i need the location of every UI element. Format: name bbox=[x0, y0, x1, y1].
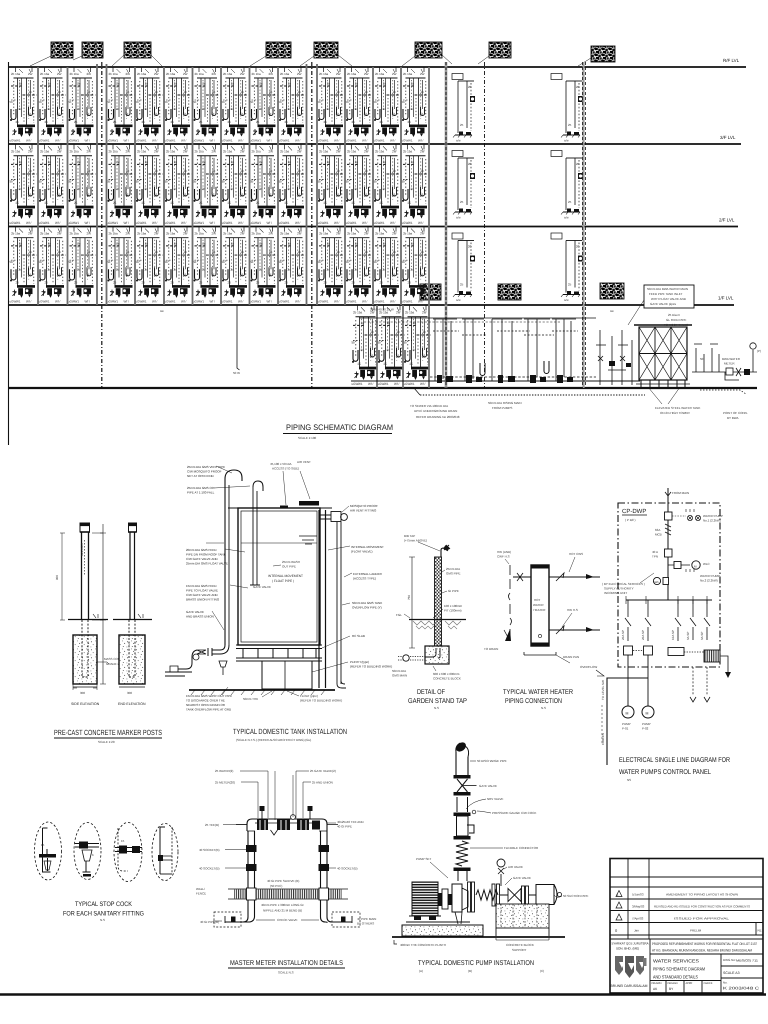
svg-text:WATER PUMP: WATER PUMP bbox=[700, 574, 720, 578]
contactors row bbox=[624, 646, 633, 655]
svg-text:GATE VALVE: GATE VALVE bbox=[479, 784, 497, 788]
svg-text:AND STANDARD DETAILS: AND STANDARD DETAILS bbox=[653, 975, 698, 980]
svg-text:AIR VALVE: AIR VALVE bbox=[508, 865, 523, 869]
cylinder strainer bbox=[536, 885, 554, 905]
svg-text:K 2003/048 C: K 2003/048 C bbox=[723, 986, 759, 991]
svg-text:6A SP: 6A SP bbox=[686, 632, 690, 640]
svg-text:RC SLAB: RC SLAB bbox=[352, 634, 365, 638]
ground line bbox=[392, 936, 565, 938]
svg-text:M: M bbox=[626, 712, 629, 716]
svg-text:600 x 600 x 600mm: 600 x 600 x 600mm bbox=[433, 672, 460, 676]
svg-text:25 GATE VALVE(2): 25 GATE VALVE(2) bbox=[310, 769, 336, 773]
svg-text:25mm DIA GMS FLOAT VALVE: 25mm DIA GMS FLOAT VALVE bbox=[186, 562, 228, 566]
header assembly bbox=[247, 819, 327, 831]
triangles + dates + descriptions bbox=[616, 891, 622, 897]
riser column 2 units bbox=[561, 81, 583, 143]
FGL line + hatch bbox=[409, 619, 466, 621]
ground line bbox=[8, 387, 757, 389]
svg-text:PIPE DN FROM ROOF TANK: PIPE DN FROM ROOF TANK bbox=[186, 553, 226, 557]
svg-text:HOT: HOT bbox=[534, 598, 541, 602]
bottom border bbox=[0, 993, 766, 995]
base under motor bbox=[406, 922, 470, 925]
svg-text:PUMP: PUMP bbox=[622, 722, 631, 726]
svg-text:6A SP: 6A SP bbox=[700, 632, 704, 640]
svg-text:(SCALE N.T.S.) (REFE: (SCALE N.T.S.) (REFER ALSO ARCHITECT DWG… bbox=[236, 738, 311, 742]
left leader lines bbox=[206, 466, 250, 695]
svg-text:NRV VALVE: NRV VALVE bbox=[487, 797, 503, 801]
wall band bbox=[228, 888, 348, 890]
motor feeders below panel bbox=[628, 655, 648, 678]
left wall bbox=[8, 62, 10, 445]
svg-text:PRESSURE GAUGE C/W COCK: PRESSURE GAUGE C/W COCK bbox=[492, 811, 536, 815]
svg-text:5/Jun/03: 5/Jun/03 bbox=[632, 893, 644, 897]
horizontal spring bbox=[476, 890, 498, 900]
left labels bbox=[186, 465, 232, 712]
revision rows bbox=[610, 877, 763, 939]
svg-text:ON 2m HIGH TOWER: ON 2m HIGH TOWER bbox=[660, 411, 691, 415]
svg-text:50 SUCTION PIPE: 50 SUCTION PIPE bbox=[563, 894, 588, 898]
ground floor distribution headers bbox=[360, 317, 596, 319]
svg-text:N.S: N.S bbox=[541, 706, 546, 710]
svg-text:25 METER(20): 25 METER(20) bbox=[215, 781, 235, 785]
coupling bbox=[438, 893, 442, 906]
logo bbox=[615, 956, 647, 978]
svg-text:BRUNEI DARUSSALAM: BRUNEI DARUSSALAM bbox=[611, 984, 648, 988]
post 1 cap bbox=[80, 523, 90, 532]
svg-text:METER: METER bbox=[724, 362, 735, 366]
heater body bbox=[531, 565, 549, 646]
left low-level pipework bbox=[212, 645, 225, 650]
svg-text:NS: NS bbox=[627, 778, 631, 782]
svg-text:UPVC UNDERGROUND DRAIN: UPVC UNDERGROUND DRAIN bbox=[414, 409, 457, 413]
svg-text:ACCESS (TO SIDE): ACCESS (TO SIDE) bbox=[272, 467, 299, 471]
svg-text:(ACCESS TYPE): (ACCESS TYPE) bbox=[353, 577, 376, 581]
svg-text:20A SP: 20A SP bbox=[641, 630, 645, 640]
svg-text:50mm THK: 50mm THK bbox=[243, 697, 258, 701]
svg-text:(+75mm ABOVE): (+75mm ABOVE) bbox=[404, 539, 427, 543]
svg-text:C/W MOSQUITO PROOF: C/W MOSQUITO PROOF bbox=[187, 470, 222, 474]
svg-text:50 DISCHARGE PIPE: 50 DISCHARGE PIPE bbox=[477, 759, 507, 763]
svg-text:NIPPLE AND 21 M BEND (B): NIPPLE AND 21 M BEND (B) bbox=[263, 909, 302, 913]
svg-text:TO ROOF TANKS: TO ROOF TANKS bbox=[664, 323, 688, 327]
svg-text:25mm DIA GMS VENT PIPE: 25mm DIA GMS VENT PIPE bbox=[187, 465, 225, 469]
svg-text:( P 1Ø ): ( P 1Ø ) bbox=[625, 518, 635, 522]
svg-text:OUT PIPE: OUT PIPE bbox=[282, 565, 296, 569]
svg-text:AIR VENT FITTING: AIR VENT FITTING bbox=[350, 509, 377, 513]
svg-text:P-02: P-02 bbox=[642, 727, 649, 731]
discharge elbow top bbox=[454, 740, 468, 753]
svg-text:NEAREST OPEN DRAIN OR: NEAREST OPEN DRAIN OR bbox=[186, 703, 226, 707]
svg-text:Jan: Jan bbox=[634, 929, 639, 933]
svg-text:GATE VALVE: GATE VALVE bbox=[186, 610, 204, 614]
float pipe bbox=[253, 481, 263, 491]
svg-text:HW H.S: HW H.S bbox=[567, 608, 578, 612]
post 1 dim line bbox=[100, 524, 106, 684]
svg-text:25 TEE(B): 25 TEE(B) bbox=[205, 823, 219, 827]
svg-text:20A SP: 20A SP bbox=[621, 630, 625, 640]
svg-text:WATER PUMP: WATER PUMP bbox=[703, 514, 723, 518]
inlet pipe top left bbox=[225, 470, 242, 481]
meters on header bbox=[257, 820, 268, 831]
valve bowtie horizontal bbox=[508, 889, 521, 902]
svg-text:15: 15 bbox=[41, 843, 45, 847]
svg-text:7/Apr/03: 7/Apr/03 bbox=[632, 917, 644, 921]
left dims bbox=[60, 533, 65, 620]
ground bbox=[189, 689, 335, 691]
svg-text:TANK OVERFLOW PIPE AT GRD: TANK OVERFLOW PIPE AT GRD bbox=[186, 708, 232, 712]
stair gap risers (dash-dot dark) bbox=[101, 62, 103, 388]
svg-text:N.S: N.S bbox=[434, 706, 439, 710]
svg-text:PIPE AT 1:100 FALL: PIPE AT 1:100 FALL bbox=[187, 491, 215, 495]
svg-text:400mm THK CONCRETE PLINTH: 400mm THK CONCRETE PLINTH bbox=[400, 943, 446, 947]
svg-text:CONCRETE BLOCK: CONCRETE BLOCK bbox=[433, 677, 461, 681]
svg-text:SIDE ELEVATION: SIDE ELEVATION bbox=[71, 702, 100, 706]
svg-text:40 A: 40 A bbox=[652, 550, 658, 554]
note box near tank bbox=[644, 285, 694, 308]
svg-text:BIB TAP: BIB TAP bbox=[404, 534, 415, 538]
svg-text:PIPING SCHEMATIC DIAGRAM: PIPING SCHEMATIC DIAGRAM bbox=[653, 967, 705, 972]
branch to motor bbox=[668, 564, 690, 566]
breaker 2 bbox=[665, 549, 673, 557]
vertical pipes bbox=[248, 831, 327, 917]
svg-text:(FLOAT VALVE): (FLOAT VALVE) bbox=[351, 550, 372, 554]
tank body bbox=[238, 508, 320, 645]
svg-text:FOR EACH SANITARY FITTING: FOR EACH SANITARY FITTING bbox=[63, 911, 144, 918]
bib tap bbox=[441, 548, 448, 557]
svg-text:kWh: kWh bbox=[654, 581, 660, 584]
svg-text:DESIGN: DESIGN bbox=[668, 982, 678, 985]
svg-text:750: 750 bbox=[407, 595, 411, 600]
svg-text:(P): (P) bbox=[757, 349, 761, 353]
svg-text:SUPPORT: SUPPORT bbox=[512, 948, 527, 952]
svg-text:FLOAT (pipe): FLOAT (pipe) bbox=[300, 694, 318, 698]
svg-text:(REFER TO BUILDING WORK): (REFER TO BUILDING WORK) bbox=[300, 699, 342, 703]
svg-text:PIPING CONNECTION: PIPING CONNECTION bbox=[505, 698, 562, 705]
svg-text:NET AT OPEN END: NET AT OPEN END bbox=[187, 474, 215, 478]
svg-text:FLEXIBLE CONNECTOR: FLEXIBLE CONNECTOR bbox=[504, 846, 539, 850]
elevated steel tank bbox=[634, 325, 700, 415]
svg-text:PUMP SET: PUMP SET bbox=[416, 857, 431, 861]
svg-text:50mm DIA BWA WATER MAIN: 50mm DIA BWA WATER MAIN bbox=[647, 287, 688, 291]
svg-text:900: 900 bbox=[55, 575, 59, 580]
svg-text:PROPOSED REFURBISHMENT WORKS F: PROPOSED REFURBISHMENT WORKS FOR RESIDEN… bbox=[652, 942, 757, 946]
svg-text:GMS MAIN: GMS MAIN bbox=[392, 674, 407, 678]
svg-text:APPR: APPR bbox=[686, 982, 693, 985]
circle 3 bbox=[114, 823, 142, 882]
ground floor fixture groups mid bbox=[433, 319, 459, 383]
svg-text:40mm PIPE x 300mm LONG GI: 40mm PIPE x 300mm LONG GI bbox=[261, 903, 304, 907]
panel border dash-dot bbox=[618, 503, 720, 667]
svg-text:50: 50 bbox=[700, 357, 704, 361]
svg-text:No.: No. bbox=[723, 981, 728, 985]
dashed drops to field bbox=[693, 667, 707, 695]
svg-text:2/F LVL: 2/F LVL bbox=[719, 218, 735, 223]
svg-text:1/F LVL: 1/F LVL bbox=[718, 296, 734, 301]
svg-text:OVERFLOW PIPE (Y): OVERFLOW PIPE (Y) bbox=[352, 606, 382, 610]
footing bbox=[425, 646, 449, 664]
fuse chevrons bbox=[665, 524, 671, 535]
svg-text:ISSUED FOR APPROVAL: ISSUED FOR APPROVAL bbox=[674, 917, 729, 921]
circle 4 bbox=[152, 824, 178, 881]
svg-text:FENCE: FENCE bbox=[196, 892, 206, 896]
svg-text:DETAIL OF: DETAIL OF bbox=[417, 689, 445, 696]
svg-text:BWA WATER: BWA WATER bbox=[722, 357, 741, 361]
svg-text:TPN: TPN bbox=[652, 555, 658, 559]
svg-text:M: M bbox=[646, 712, 649, 716]
svg-text:OVERFLOW: OVERFLOW bbox=[580, 665, 597, 669]
svg-text:40 SOCKET(B): 40 SOCKET(B) bbox=[199, 848, 220, 852]
svg-text:SCALE 1:100: SCALE 1:100 bbox=[298, 436, 317, 440]
svg-text:25 Dia m: 25 Dia m bbox=[668, 313, 681, 317]
unit bays: 2/F band bbox=[10, 227, 430, 303]
1/F level label boxes (speckled) bbox=[420, 284, 441, 300]
svg-text:25mm DIA GMS O/F: 25mm DIA GMS O/F bbox=[187, 486, 215, 490]
svg-text:300: 300 bbox=[127, 691, 132, 695]
svg-text:PRE-CAST CONCRETE MARKER POSTS: PRE-CAST CONCRETE MARKER POSTS bbox=[54, 728, 162, 737]
svg-text:HOT CWS: HOT CWS bbox=[569, 552, 583, 556]
svg-text:WALL/: WALL/ bbox=[196, 887, 205, 891]
right support column bbox=[319, 510, 326, 688]
svg-text:20 50 40 50 25 W: 20 50 40 50 25 W bbox=[370, 308, 394, 312]
svg-text:PIT (100mm): PIT (100mm) bbox=[444, 609, 461, 613]
footing 1 bbox=[73, 635, 97, 684]
svg-text:N.S: N.S bbox=[100, 918, 105, 922]
svg-text:REVISED AND RE-ISSUED FOR CONS: REVISED AND RE-ISSUED FOR CONSTRUCTION A… bbox=[654, 905, 750, 909]
lower section bbox=[649, 939, 651, 993]
svg-text:25mm DIA: 25mm DIA bbox=[446, 567, 460, 571]
svg-text:No.2 (2.2kW): No.2 (2.2kW) bbox=[700, 579, 718, 583]
incoming supply bbox=[667, 488, 669, 600]
svg-text:R/F LVL: R/F LVL bbox=[723, 58, 740, 63]
svg-text:BY OTHERS: BY OTHERS bbox=[357, 922, 374, 926]
below ground dotted drain bbox=[420, 394, 645, 396]
svg-text:TO DISCHARGE OVER THE: TO DISCHARGE OVER THE bbox=[186, 699, 225, 703]
svg-text:INTERNAL MOVEMENT: INTERNAL MOVEMENT bbox=[351, 545, 384, 549]
svg-text:POINT OF CONN.: POINT OF CONN. bbox=[723, 411, 748, 415]
leader lines from roof boxes bbox=[30, 55, 591, 66]
svg-text:40x25x40 TEE AND: 40x25x40 TEE AND bbox=[337, 820, 364, 824]
svg-text:MARKER: MARKER bbox=[80, 542, 84, 556]
svg-text:PRELIM: PRELIM bbox=[690, 929, 702, 933]
svg-text:CHECK: CHECK bbox=[704, 982, 713, 985]
post 1 shaft bbox=[82, 532, 89, 620]
svg-text:PIPING SCHEMATIC DIAGRAM: PIPING SCHEMATIC DIAGRAM bbox=[286, 423, 393, 432]
circle 1 bbox=[35, 822, 62, 880]
unit bays: ground band (right part only) bbox=[352, 306, 432, 386]
svg-text:50mm DIA GMS TANK: 50mm DIA GMS TANK bbox=[352, 601, 382, 605]
svg-text:40 SOCKET(B): 40 SOCKET(B) bbox=[199, 867, 220, 871]
svg-text:EXTERNAL LADDER: EXTERNAL LADDER bbox=[353, 572, 383, 576]
post 2 shaft bbox=[130, 532, 135, 620]
ground line post1 bbox=[68, 619, 108, 621]
svg-text:TYPICAL STOP COCK: TYPICAL STOP COCK bbox=[75, 901, 133, 908]
cover bar bbox=[299, 501, 319, 506]
svg-text:25mm WASH: 25mm WASH bbox=[282, 560, 300, 564]
flange pair bbox=[492, 884, 495, 906]
svg-text:GATE VALVE: GATE VALVE bbox=[253, 585, 271, 589]
svg-text:GARDEN STAND TAP: GARDEN STAND TAP bbox=[408, 698, 467, 705]
bottom elbows bbox=[225, 917, 255, 922]
pedestal under valve train bbox=[496, 904, 549, 928]
svg-text:CP-DWP: CP-DWP bbox=[622, 508, 646, 515]
svg-text:FGL: FGL bbox=[396, 613, 402, 617]
svg-text:TYPICAL DOMESTIC PUMP INSTALLA: TYPICAL DOMESTIC PUMP INSTALLATION bbox=[418, 960, 534, 967]
unit bays: 3/F band bbox=[10, 145, 430, 225]
svg-text:GATE VALVE: GATE VALVE bbox=[513, 876, 531, 880]
svg-text:PIPE TO FLOAT VALVE: PIPE TO FLOAT VALVE bbox=[186, 589, 218, 593]
roof line bbox=[8, 66, 746, 68]
svg-text:CWF H.S: CWF H.S bbox=[497, 555, 510, 559]
svg-text:ELECTRICAL SINGLE LINE DIAGRAM: ELECTRICAL SINGLE LINE DIAGRAM FOR bbox=[619, 757, 730, 764]
svg-text:40 GI PIPE SLEEVE (B): 40 GI PIPE SLEEVE (B) bbox=[267, 879, 299, 883]
svg-text:45,100 x 50 DIA: 45,100 x 50 DIA bbox=[270, 462, 292, 466]
right of tank : meter connection bbox=[692, 343, 757, 380]
svg-text:TYPICAL DOMESTIC TANK INSTALLA: TYPICAL DOMESTIC TANK INSTALLATION bbox=[233, 727, 347, 736]
riser gauge above bbox=[500, 874, 502, 886]
svg-text:END ELEVATION: END ELEVATION bbox=[118, 702, 146, 706]
svg-text:GATE VALVE pipes: GATE VALVE pipes bbox=[650, 302, 677, 306]
2/F line bbox=[8, 226, 738, 228]
svg-text:AT KG. BHANGKAL MUKIM KIANGGEH: AT KG. BHANGKAL MUKIM KIANGGEH, NEGARA B… bbox=[652, 949, 752, 953]
svg-text:GL FEED PIPE: GL FEED PIPE bbox=[666, 318, 686, 322]
svg-text:(50 PVC): (50 PVC) bbox=[270, 884, 282, 888]
pump body bbox=[452, 884, 462, 912]
svg-text:WATER: WATER bbox=[533, 603, 544, 607]
svg-text:(C): (C) bbox=[540, 969, 544, 973]
svg-text:C/W GATE VALVE AND: C/W GATE VALVE AND bbox=[186, 593, 219, 597]
bottom bracket bbox=[524, 652, 556, 655]
svg-text:15mm DIA GMS WASH OUT PIPE: 15mm DIA GMS WASH OUT PIPE bbox=[186, 694, 232, 698]
main breaker bbox=[665, 512, 673, 520]
svg-text:100 x 100mm: 100 x 100mm bbox=[444, 604, 463, 608]
svg-text:50mm DIA: 50mm DIA bbox=[392, 669, 406, 673]
tank stand bbox=[236, 645, 322, 649]
bottom pipe bbox=[425, 648, 440, 658]
svg-text:( FLOAT PIPE ): ( FLOAT PIPE ) bbox=[272, 579, 294, 583]
svg-text:INCOMING UNIT: INCOMING UNIT bbox=[604, 591, 627, 595]
post 2 cap bbox=[129, 523, 137, 532]
3/F line bbox=[8, 143, 741, 145]
flexible spring bbox=[456, 841, 468, 866]
svg-text:15: 15 bbox=[121, 839, 125, 843]
svg-text:DRAIN PAN: DRAIN PAN bbox=[563, 655, 579, 659]
horizontal bus bbox=[626, 599, 712, 601]
svg-text:SYARIKAT QGS JURUTERA: SYARIKAT QGS JURUTERA bbox=[612, 942, 650, 946]
ground line post 2 bbox=[113, 619, 152, 621]
svg-text:MOSQUITO PROOF: MOSQUITO PROOF bbox=[350, 504, 378, 508]
footing interlink dim bbox=[97, 662, 109, 664]
NRV section bbox=[457, 797, 468, 812]
svg-text:AMENDMENT TO PIPING LAYOUT AS: AMENDMENT TO PIPING LAYOUT AS SHOWN bbox=[666, 893, 738, 897]
svg-text:CONCRETE BLOCK: CONCRETE BLOCK bbox=[506, 943, 534, 947]
svg-text:40 SOCKET(B): 40 SOCKET(B) bbox=[337, 867, 358, 871]
svg-text:FROM PUMPS: FROM PUMPS bbox=[492, 406, 512, 410]
svg-text:CABLES: CABLES bbox=[601, 733, 605, 745]
svg-text:BRASS UNION FITTING: BRASS UNION FITTING bbox=[186, 598, 220, 602]
svg-text:50 W: 50 W bbox=[233, 371, 240, 375]
svg-text:HEATER: HEATER bbox=[534, 608, 547, 612]
svg-text:SCALE N.S: SCALE N.S bbox=[278, 971, 294, 975]
svg-text:10A SP: 10A SP bbox=[671, 630, 675, 640]
svg-text:63A: 63A bbox=[655, 528, 660, 532]
svg-text:REFER DRAWING No 2003/048: REFER DRAWING No 2003/048 bbox=[416, 415, 460, 419]
lower connection bbox=[549, 629, 600, 631]
svg-text:MBS(03) 711: MBS(03) 711 bbox=[736, 959, 758, 963]
svg-text:C/W GATE VALVE AND: C/W GATE VALVE AND bbox=[186, 557, 219, 561]
svg-text:300: 300 bbox=[80, 691, 85, 695]
svg-text:No.1 (2.2kW): No.1 (2.2kW) bbox=[703, 519, 721, 523]
bottom labels bbox=[394, 940, 397, 944]
svg-text:GMS PIPE: GMS PIPE bbox=[446, 572, 461, 576]
svg-text:AIR VENT: AIR VENT bbox=[297, 460, 311, 464]
svg-text:MCB: MCB bbox=[655, 533, 662, 537]
pipe column with hatch bbox=[435, 557, 442, 648]
pump/valve manifold left of tank bbox=[596, 330, 632, 385]
right drop pipe bbox=[337, 522, 341, 684]
svg-text:SUPPLY AUTHORITY: SUPPLY AUTHORITY bbox=[604, 587, 634, 591]
svg-text:HW (AND): HW (AND) bbox=[497, 550, 511, 554]
kwh meter bbox=[653, 577, 660, 584]
svg-text:FEED PIPE TANK INLET: FEED PIPE TANK INLET bbox=[649, 292, 683, 296]
left dashed cold feed bbox=[509, 565, 512, 639]
svg-text:(A): (A) bbox=[419, 969, 423, 973]
svg-text:BY BWA: BY BWA bbox=[727, 416, 739, 420]
left dim bracket bbox=[409, 557, 415, 648]
svg-text:50mm DIA RISING MAIN: 50mm DIA RISING MAIN bbox=[488, 401, 522, 405]
circle 2 bbox=[74, 823, 101, 880]
svg-text:20mm DIA GMS FEED: 20mm DIA GMS FEED bbox=[186, 548, 217, 552]
gate valve bowtie bbox=[457, 779, 468, 792]
svg-text:WATER SERVICES: WATER SERVICES bbox=[653, 959, 699, 964]
svg-text:GI PIPE: GI PIPE bbox=[448, 589, 459, 593]
svg-text:WATER PUMPS CONTROL PANEL: WATER PUMPS CONTROL PANEL bbox=[619, 769, 711, 776]
svg-text:WLC: WLC bbox=[703, 562, 711, 566]
main riser grey + dashes at x446 bbox=[445, 62, 448, 388]
party walls (grey) bbox=[38, 64, 429, 388]
plinth bbox=[402, 925, 483, 936]
svg-text:TO LEVEL SW: TO LEVEL SW bbox=[601, 680, 605, 700]
roof tank label boxes (speckled) bbox=[51, 42, 615, 62]
svg-text:40 GI PIPE: 40 GI PIPE bbox=[337, 825, 352, 829]
1/F line bbox=[8, 304, 734, 306]
svg-text:CHECK VALVE: CHECK VALVE bbox=[277, 918, 298, 922]
svg-text:3/May/03: 3/May/03 bbox=[632, 905, 645, 909]
overflow right bbox=[320, 515, 331, 519]
svg-text:FROM MAIN: FROM MAIN bbox=[672, 491, 689, 495]
svg-text:3/F LVL: 3/F LVL bbox=[720, 135, 736, 140]
svg-text:25 AND UNION: 25 AND UNION bbox=[312, 781, 333, 785]
svg-text:SCALE A3: SCALE A3 bbox=[723, 971, 740, 975]
feeder drops with switches bbox=[625, 600, 710, 641]
svg-text:SDN. BHD. (ME): SDN. BHD. (ME) bbox=[616, 947, 639, 951]
svg-text:TO SEWER VIA 100mm DIA: TO SEWER VIA 100mm DIA bbox=[410, 404, 448, 408]
svg-text:(REFER TO BUILDING WORK): (REFER TO BUILDING WORK) bbox=[350, 665, 392, 669]
riser column 1 units bbox=[453, 81, 475, 143]
svg-text:MASTER METER INSTALLATION DETA: MASTER METER INSTALLATION DETAILS bbox=[230, 960, 343, 967]
svg-text:TYPICAL WATER HEATER: TYPICAL WATER HEATER bbox=[503, 689, 573, 696]
svg-text:WITH FLOAT VALVE AND: WITH FLOAT VALVE AND bbox=[651, 297, 687, 301]
svg-text:TO DRAIN: TO DRAIN bbox=[484, 647, 498, 651]
svg-text:DRAWN: DRAWN bbox=[652, 982, 662, 985]
footing 2 bbox=[119, 635, 145, 684]
svg-text:P-01: P-01 bbox=[622, 727, 629, 731]
svg-text:INTERNAL MOVEMENT: INTERNAL MOVEMENT bbox=[268, 574, 303, 578]
svg-text:RE: RE bbox=[758, 929, 762, 933]
unit bays: roof band bbox=[10, 68, 430, 143]
svg-text:SCALE 1:20: SCALE 1:20 bbox=[98, 740, 115, 744]
svg-text:25 WATER(2): 25 WATER(2) bbox=[215, 769, 233, 773]
svg-text:( BY ELECTRICAL SERVICES ): ( BY ELECTRICAL SERVICES ) bbox=[602, 582, 645, 586]
